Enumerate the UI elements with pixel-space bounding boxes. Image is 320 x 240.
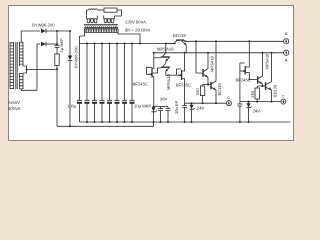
transformer TR1 core [16, 42, 17, 89]
wire secondary bottom lead to D2 [21, 44, 40, 90]
node T6 emitter [207, 84, 209, 86]
svg-text:10µ MKP: 10µ MKP [134, 104, 152, 109]
wire snubber branch [56, 31, 58, 45]
wire clamp line left [185, 102, 227, 104]
transformer TR1 primary winding [10, 42, 14, 89]
capacitor bank C2-C9 [77, 44, 135, 123]
transistor T9 MPSA18 [257, 52, 269, 86]
diode D3 BYW96-200 vertical [68, 31, 73, 126]
terminal A2 [284, 50, 289, 62]
border frame [8, 5, 294, 141]
svg-text:BF245C: BF245C [236, 78, 251, 83]
svg-text:BD139: BD139 [173, 33, 186, 38]
diode D2 BYW96-200 [41, 42, 57, 47]
svg-text:560: 560 [250, 90, 255, 97]
svg-text:BF245C: BF245C [133, 81, 148, 86]
capacitor C1 1µ MKP [55, 45, 60, 54]
svg-text:BD139: BD139 [272, 84, 277, 97]
zener D4 36V [151, 97, 167, 124]
svg-text:A: A [285, 31, 288, 36]
svg-text:36V: 36V [160, 97, 168, 102]
resistor R2 series [104, 8, 122, 19]
node bank bottom junctions [86, 121, 133, 123]
transformer TR2 primary right winding [104, 16, 115, 23]
svg-text:1µ MKP: 1µ MKP [59, 38, 64, 53]
svg-text:BD139: BD139 [217, 82, 222, 95]
svg-text:24V: 24V [197, 106, 205, 111]
transistor T4 BD139 [166, 33, 187, 53]
transistor T3 MPSA18 [153, 63, 171, 90]
svg-text:220V 80VA: 220V 80VA [125, 20, 146, 25]
terminal C2 [281, 94, 286, 104]
zener D5 24V [189, 102, 204, 123]
wire secondary top lead to D1 [21, 31, 40, 42]
svg-text:300VA: 300VA [8, 106, 20, 111]
zener D6 24V [246, 101, 260, 123]
svg-text:C: C [282, 94, 285, 98]
wire rail2 to A2 [154, 52, 284, 54]
svg-text:BYW96-200: BYW96-200 [74, 46, 79, 68]
svg-text:2x50V: 2x50V [8, 100, 20, 105]
svg-text:MPSA18: MPSA18 [166, 73, 171, 90]
transformer TR2 core [84, 25, 118, 28]
svg-text:24V: 24V [253, 109, 261, 114]
svg-text:BYW96-200: BYW96-200 [32, 23, 55, 28]
node T9 emitter [262, 85, 264, 87]
capacitor group1 c 10n KP [166, 101, 179, 123]
svg-text:8H + 28 Ohm: 8H + 28 Ohm [125, 27, 151, 32]
svg-text:MPSA18: MPSA18 [264, 53, 269, 70]
svg-text:10n KP: 10n KP [174, 101, 179, 114]
inductor L1 choke [87, 9, 105, 15]
wire clamp line right [240, 101, 281, 103]
transformer TR2 primary left winding [87, 15, 98, 23]
capacitor group1 b [158, 107, 163, 123]
transistor T7 BD139 [210, 40, 222, 103]
JFET T5 BF245C [166, 52, 191, 103]
wire centre tap [27, 69, 58, 126]
terminal C1 [226, 96, 231, 106]
svg-text:100µ: 100µ [67, 104, 77, 109]
resistor R4 560 [250, 86, 260, 102]
svg-text:A: A [285, 57, 288, 62]
wire ground bus [80, 121, 291, 123]
resistor R1 [55, 54, 59, 69]
resistor R3 560 [195, 85, 205, 104]
transistor T2 MPSA18 [154, 44, 174, 64]
svg-text:C: C [227, 96, 230, 100]
svg-text:BF245C: BF245C [176, 83, 191, 88]
transformer TR2 secondary winding [80, 29, 141, 44]
capacitor group2 a [182, 103, 187, 123]
terminal A1 [284, 31, 289, 44]
wire HV bus [80, 36, 177, 44]
transistor T10 BD139 [265, 52, 278, 102]
svg-text:560: 560 [195, 88, 200, 95]
JFET T8 BF245C [236, 40, 258, 82]
JFET T1 BF245C [133, 52, 155, 107]
svg-text:MPSA18: MPSA18 [210, 55, 215, 72]
rail 36V group [154, 106, 169, 108]
transistor T6 MPSA18 [202, 52, 214, 85]
wire rail1 to A1 [184, 40, 284, 42]
capacitor group3 a [237, 102, 242, 123]
node rectifier output [56, 30, 58, 32]
wire feed left half [196, 41, 202, 73]
diode D1 BYW96-200 [41, 29, 70, 34]
node bus junctions [86, 43, 167, 45]
transformer TR1 secondary winding [20, 42, 28, 89]
wire centre tap return [57, 122, 154, 126]
wire JFET T8 gate feed [239, 63, 241, 102]
